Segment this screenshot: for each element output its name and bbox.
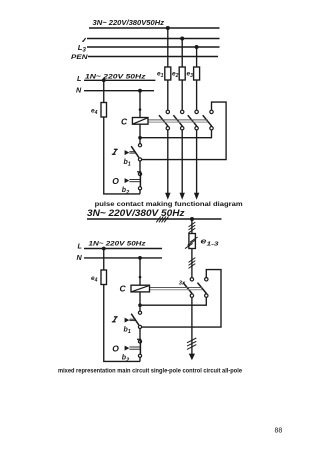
svg-text:e1: e1 [157,70,164,79]
svg-text:e4: e4 [91,275,98,284]
wire L3 to fuse e3 [196,47,198,67]
label L2 fragment [82,38,85,41]
wire line L [84,79,155,81]
wire line L2 [84,248,162,250]
wire bus L3 [87,46,220,48]
fuse e3 [194,67,200,80]
wire bus to fuse e1-3 [191,219,193,234]
contactor main contact (single line) [183,278,193,298]
node on L3 [195,45,199,49]
pushbutton b2 (stop, NC) [125,172,142,190]
wire line N2 [84,257,162,259]
wire N to coil [139,91,141,118]
wire b1' to b2' [139,329,141,340]
wire L2' to fuse e4' [103,249,105,271]
conductor-count slashes above fuse [189,222,196,233]
wire coil bottom to b1 [139,124,141,143]
node small on coil feed [139,108,142,111]
wire L to fuse e4 [103,80,105,102]
conductor-count slashes on output [187,338,196,349]
node on N [138,89,142,93]
wire output phase 1 [167,130,169,193]
contactor auxiliary contact [203,110,214,130]
wire bus L1 [89,27,220,29]
svg-text:e1-3: e1-3 [201,237,220,248]
conductor-count slashes below fuse [189,258,196,269]
conductor-count slashes on bus [156,217,168,223]
contactor auxiliary contact 2 [198,278,209,298]
wire junction to aux contact bottom [140,130,212,138]
svg-text:1N~ 220V 50Hz: 1N~ 220V 50Hz [89,241,147,248]
svg-text:mixed representation main circ: mixed representation main circuit single… [58,368,243,375]
coil C (contactor) [132,118,148,125]
node on N2 [138,256,142,260]
svg-text:L3: L3 [78,43,87,54]
wire coil2 bottom to b1 [139,292,141,311]
svg-text:88: 88 [275,427,283,434]
wire bus L2 [87,38,220,40]
svg-text:L: L [77,74,81,83]
node junction aux bottom branch [138,136,142,140]
pushbutton b1' (start, NO) [125,311,142,328]
wire bottom rail [104,117,140,194]
svg-text:O: O [112,176,119,186]
wire aux top to loop [142,102,227,160]
wire fuse e2 to contact 2 [181,80,183,110]
mechanical linkage 2 [150,288,203,290]
arrow output phase 1 [165,193,170,200]
wire line N [84,90,154,92]
wire bus PEN [88,56,218,58]
node on L [102,78,106,82]
arrow output phase 2 [180,193,185,200]
arrow main output [189,354,195,361]
node junction aux2 bottom branch [138,303,142,307]
label I' [112,317,118,322]
node bus tap [190,217,194,221]
node on L2 [102,247,106,251]
svg-text:e4: e4 [91,107,98,116]
wire output phase 2 [181,130,183,193]
fuse e1-3 [189,234,196,249]
contactor main contact pole 1 [159,110,170,130]
svg-text:O: O [112,344,119,354]
mechanical linkage coil to contacts [148,120,208,122]
fuse e1 [165,67,171,80]
svg-text:C: C [120,283,127,293]
slashes across fuse e1-3 [185,237,198,249]
arrow output phase 3 [194,193,199,200]
fuse e4 [101,103,107,118]
wire b2' to bottom rail 2 [139,357,141,361]
wire main output [191,297,193,354]
svg-text:e2: e2 [172,70,179,79]
wire aux2 top loop [142,270,221,328]
pushbutton b2' (stop, NC) [125,339,142,357]
wire L1 to fuse e1 [167,28,169,67]
svg-text:b1: b1 [124,159,131,168]
fuse e4' [101,270,107,285]
pushbutton b1 (start, NO) [125,144,142,161]
svg-text:PEN: PEN [71,54,88,61]
contactor main contact pole 2 [173,110,184,130]
wire bottom rail 2 [104,285,140,362]
wire output phase 3 [196,130,198,193]
svg-text:3N~ 220V/380V 50Hz: 3N~ 220V/380V 50Hz [87,208,185,218]
contactor main contact pole 3 [188,110,199,130]
svg-text:N: N [77,253,83,262]
coil C2 (contactor) [131,285,150,292]
svg-text:3N~ 220V/380V50Hz: 3N~ 220V/380V50Hz [93,18,165,27]
wire fuse e3 to contact 3 [196,80,198,110]
node small on coil feed 2 [139,276,142,279]
wire N2 to coil [139,258,141,285]
svg-text:N: N [76,85,82,94]
fuse e2 [179,67,185,80]
svg-text:1N~ 220V 50Hz: 1N~ 220V 50Hz [85,73,146,80]
svg-text:L: L [78,241,82,250]
wire b1 to b2 [139,161,141,172]
svg-text:b1: b1 [124,326,131,335]
svg-text:e3: e3 [187,70,194,79]
wire L2 to fuse e2 [181,39,183,68]
node on L1 [166,26,170,30]
wire junction2 to aux contact bottom [140,297,206,305]
wire fuse to main contact [191,249,193,278]
wire bus single-line [87,218,222,220]
node on L2 [180,37,184,41]
label I [112,149,118,154]
wire b2 to bottom rail [139,190,141,194]
wire fuse e1 to contact 1 [167,80,169,110]
svg-text:C: C [121,117,128,127]
